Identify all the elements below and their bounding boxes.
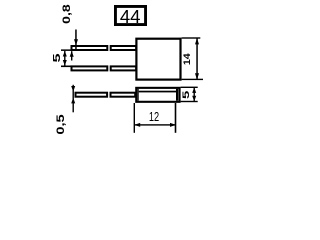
package body side view xyxy=(136,88,179,102)
dimension 14 line xyxy=(196,38,198,80)
dimension 0,8 lower stub xyxy=(71,51,72,60)
dimension 5 arrow down xyxy=(63,60,67,66)
dimension 0,8 arrow up xyxy=(70,51,74,57)
dimension 0,5 leader line xyxy=(73,85,74,113)
extension line side view top right xyxy=(181,87,198,88)
side lead segment 1 xyxy=(76,93,108,97)
svg-text:12: 12 xyxy=(149,111,159,125)
extension line lower lead top xyxy=(61,66,72,68)
dimension 5 line xyxy=(64,51,65,66)
side view inner top line xyxy=(139,91,176,93)
extension line 12 left xyxy=(134,103,135,133)
svg-text:44: 44 xyxy=(120,6,141,27)
extension line side view bottom right xyxy=(181,101,198,102)
dimension 5 right arrow down xyxy=(192,96,196,102)
dimension 5 right line xyxy=(194,87,195,101)
dimension 0,8 arrow down xyxy=(74,39,78,45)
extension line body top right xyxy=(182,37,201,38)
dimension 0,5 arrow up xyxy=(71,98,75,104)
dimension 12 arrow left xyxy=(134,123,140,127)
svg-text:5: 5 xyxy=(51,53,63,63)
dimension 12 line xyxy=(134,124,176,125)
dimension 14 arrow up xyxy=(195,38,199,44)
dimension 12 arrow right xyxy=(170,123,176,127)
dimension 14 arrow down xyxy=(195,73,199,79)
svg-text:0,5: 0,5 xyxy=(54,114,67,134)
extension line 12 right xyxy=(175,103,177,133)
dimension 5 right arrow up xyxy=(192,87,196,93)
side lead segment 2 xyxy=(111,93,136,97)
dimension 5 arrow up xyxy=(63,51,67,57)
package body top view xyxy=(136,39,180,80)
svg-text:0,8: 0,8 xyxy=(61,4,73,24)
extension line body bottom right xyxy=(182,79,203,80)
upper lead segment 2 xyxy=(111,46,136,50)
svg-text:5: 5 xyxy=(181,91,191,99)
svg-text:14: 14 xyxy=(182,53,192,65)
upper lead segment 1 xyxy=(72,46,108,50)
dimension 0,8 leader line xyxy=(75,30,77,52)
dimension 0,5 arrow down xyxy=(71,86,75,92)
marking box xyxy=(115,6,145,24)
lower lead segment 2 xyxy=(111,66,136,70)
side view left cap line xyxy=(137,89,138,101)
extension line upper lead bottom xyxy=(61,49,72,51)
lower lead segment 1 xyxy=(72,66,108,70)
side view right cap line xyxy=(176,89,178,101)
